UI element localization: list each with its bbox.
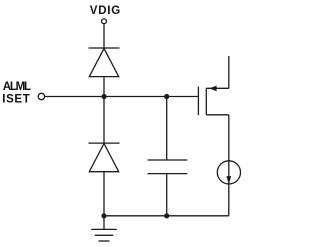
wire ISET node to D2 cathode bbox=[103, 97, 105, 144]
wire capacitor top bbox=[166, 97, 168, 161]
diode D1 anode triangle bbox=[89, 48, 118, 76]
MOSFET M1 source arrow (pointing into channel) bbox=[209, 86, 216, 92]
MOSFET M1 gate bar bbox=[197, 87, 199, 116]
wire ground stub bbox=[103, 216, 105, 230]
capacitor C1 bottom plate bbox=[148, 173, 188, 175]
current source I1 (circle) bbox=[217, 161, 240, 184]
diode D1 (ESD clamp to VDIG): cathode bar bbox=[89, 47, 120, 49]
wire D1 anode to ISET node bbox=[103, 77, 105, 97]
diode D2 (ESD clamp to GND): cathode bar bbox=[89, 142, 120, 144]
MOSFET M1 drain lead (bottom) bbox=[206, 114, 229, 116]
svg-text:VDIG: VDIG bbox=[90, 5, 120, 17]
wire VDIG pin to D1 cathode bbox=[103, 24, 105, 48]
terminal pin VDIG (open circle) bbox=[102, 19, 107, 24]
wire capacitor bottom to ground rail bbox=[166, 174, 168, 216]
wire ground rail bbox=[104, 215, 229, 217]
MOSFET M1 source lead (top) bbox=[206, 87, 229, 89]
junction dot ground rail at capacitor bbox=[164, 213, 169, 218]
ground symbol bbox=[91, 229, 117, 241]
junction dot ground rail at D2 bbox=[101, 213, 106, 218]
wire MOSFET source to supply (stub up) bbox=[228, 56, 230, 88]
terminal pin ALML/ISET (open circle) bbox=[38, 93, 44, 99]
capacitor C1 top plate bbox=[148, 159, 188, 161]
MOSFET M1 channel bar bbox=[205, 88, 207, 115]
svg-text:ISET: ISET bbox=[2, 94, 30, 106]
wire ISET node (main horizontal net to MOSFET gate) bbox=[45, 96, 198, 98]
current source I1 arrow (down) bbox=[226, 176, 231, 184]
svg-text:ALML: ALML bbox=[3, 81, 31, 93]
wire current source bottom to ground rail corner bbox=[228, 115, 230, 216]
diode D2 anode triangle bbox=[89, 144, 118, 172]
junction dot ISET node at D1/D2 branch bbox=[102, 94, 107, 99]
junction dot ISET node at capacitor branch bbox=[164, 94, 169, 99]
wire D2 anode to ground rail bbox=[103, 172, 105, 216]
